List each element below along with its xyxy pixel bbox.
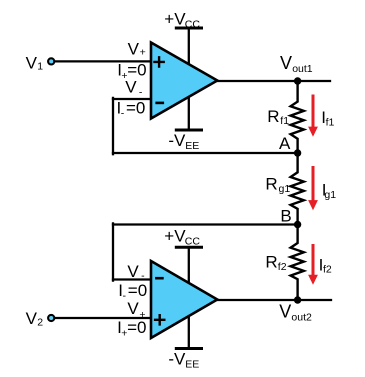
svg-text:B: B [280, 206, 291, 225]
svg-text:2: 2 [37, 317, 43, 329]
label I-=0 (U2) [118, 281, 147, 302]
label V1 [26, 53, 44, 72]
svg-text:CC: CC [185, 18, 201, 30]
label I+=0 (U2) [117, 318, 146, 339]
label +VCC (bottom) [164, 227, 200, 248]
terminal V2 [48, 315, 54, 321]
svg-text:+V: +V [164, 9, 186, 28]
wire V1 to U1 noninverting input [53, 60, 152, 62]
svg-text:=0: =0 [128, 281, 147, 300]
wire node B feedback horizontal [113, 223, 298, 225]
wire node A feedback [113, 152, 298, 154]
label V+ (U1) [128, 39, 146, 58]
svg-text:1: 1 [37, 61, 43, 73]
wire V2 to U2 noninverting input [53, 317, 152, 319]
label If1 [321, 108, 334, 128]
svg-text:+V: +V [164, 227, 186, 246]
label +VCC (top) [164, 9, 200, 30]
+VCC bar (top) [176, 27, 201, 30]
label -VEE (bottom) [168, 350, 199, 371]
svg-text:CC: CC [185, 236, 201, 248]
wire U1 inverting input to feedback [113, 98, 152, 100]
wire U2 inverting input [113, 278, 152, 280]
label Rg1 [265, 175, 290, 195]
svg-text:R: R [265, 175, 277, 194]
label I-=0 (U1) [117, 99, 146, 120]
svg-text:EE: EE [185, 140, 199, 152]
label -VEE (top) [168, 131, 199, 152]
svg-text:out1: out1 [292, 63, 313, 75]
svg-text:V: V [128, 39, 140, 58]
label V+ (U2) [127, 299, 145, 321]
svg-text:V: V [280, 53, 292, 73]
svg-text:V: V [127, 262, 139, 281]
svg-text:-V: -V [168, 131, 186, 150]
svg-text:out2: out2 [291, 312, 312, 324]
-VEE bar (bottom) [176, 347, 201, 350]
wire U2 output [216, 299, 331, 301]
svg-text:f1: f1 [326, 116, 335, 128]
label If2 [319, 256, 332, 276]
current arrow If1 [308, 96, 318, 137]
svg-text:V: V [26, 53, 38, 72]
label Ig1 [322, 181, 336, 201]
label V- (U1) [125, 77, 143, 98]
resistor Rg1 [291, 153, 304, 225]
svg-text:=0: =0 [126, 99, 145, 118]
minus symbol U1 [157, 102, 163, 105]
svg-text:g1: g1 [324, 189, 336, 201]
svg-text:V: V [279, 301, 291, 321]
current arrow If2 [308, 246, 318, 285]
-VEE bar (top) [176, 129, 201, 132]
plus symbol U2 [155, 315, 164, 324]
label V2 [26, 309, 44, 328]
svg-text:V: V [125, 77, 137, 96]
node A [294, 149, 301, 156]
label Vout1 [280, 53, 313, 75]
svg-text:+: + [140, 47, 146, 59]
svg-text:-: - [121, 108, 125, 120]
resistor Rf1 [291, 81, 304, 153]
label Rf1 [267, 107, 289, 127]
minus symbol U2 [156, 277, 162, 280]
svg-text:EE: EE [185, 358, 199, 370]
supply line U1 [188, 28, 190, 130]
svg-text:=0: =0 [127, 318, 146, 337]
node B [294, 221, 301, 228]
svg-text:-: - [139, 86, 143, 98]
svg-text:f2: f2 [278, 261, 287, 273]
label V- (U2) [127, 262, 145, 282]
plus symbol U1 [155, 57, 164, 66]
label I+=0 (U1) [117, 61, 146, 82]
current arrow Ig1 [308, 168, 318, 211]
node Vout1 [294, 77, 301, 84]
+VCC bar (bottom) [176, 246, 201, 249]
op-amp U2 [151, 261, 217, 338]
svg-text:V: V [127, 299, 139, 318]
svg-text:f2: f2 [323, 264, 332, 276]
terminal V1 [48, 58, 54, 64]
svg-text:V: V [26, 309, 38, 328]
wire U1 output [216, 80, 330, 82]
wire feedback vertical (U2) [112, 223, 114, 280]
svg-text:-: - [123, 290, 127, 302]
node Vout2 [294, 296, 301, 303]
svg-text:R: R [265, 253, 277, 272]
op-amp U1 [151, 43, 217, 119]
svg-text:f1: f1 [280, 115, 289, 127]
svg-text:R: R [267, 107, 279, 126]
label Vout2 [279, 301, 312, 323]
label Rf2 [265, 253, 286, 273]
wire feedback vertical (U1) [112, 98, 114, 154]
supply line U2 [188, 247, 190, 348]
resistor Rf2 [291, 225, 304, 301]
svg-text:g1: g1 [279, 183, 291, 195]
svg-text:-V: -V [168, 350, 186, 369]
svg-text:A: A [279, 134, 291, 153]
